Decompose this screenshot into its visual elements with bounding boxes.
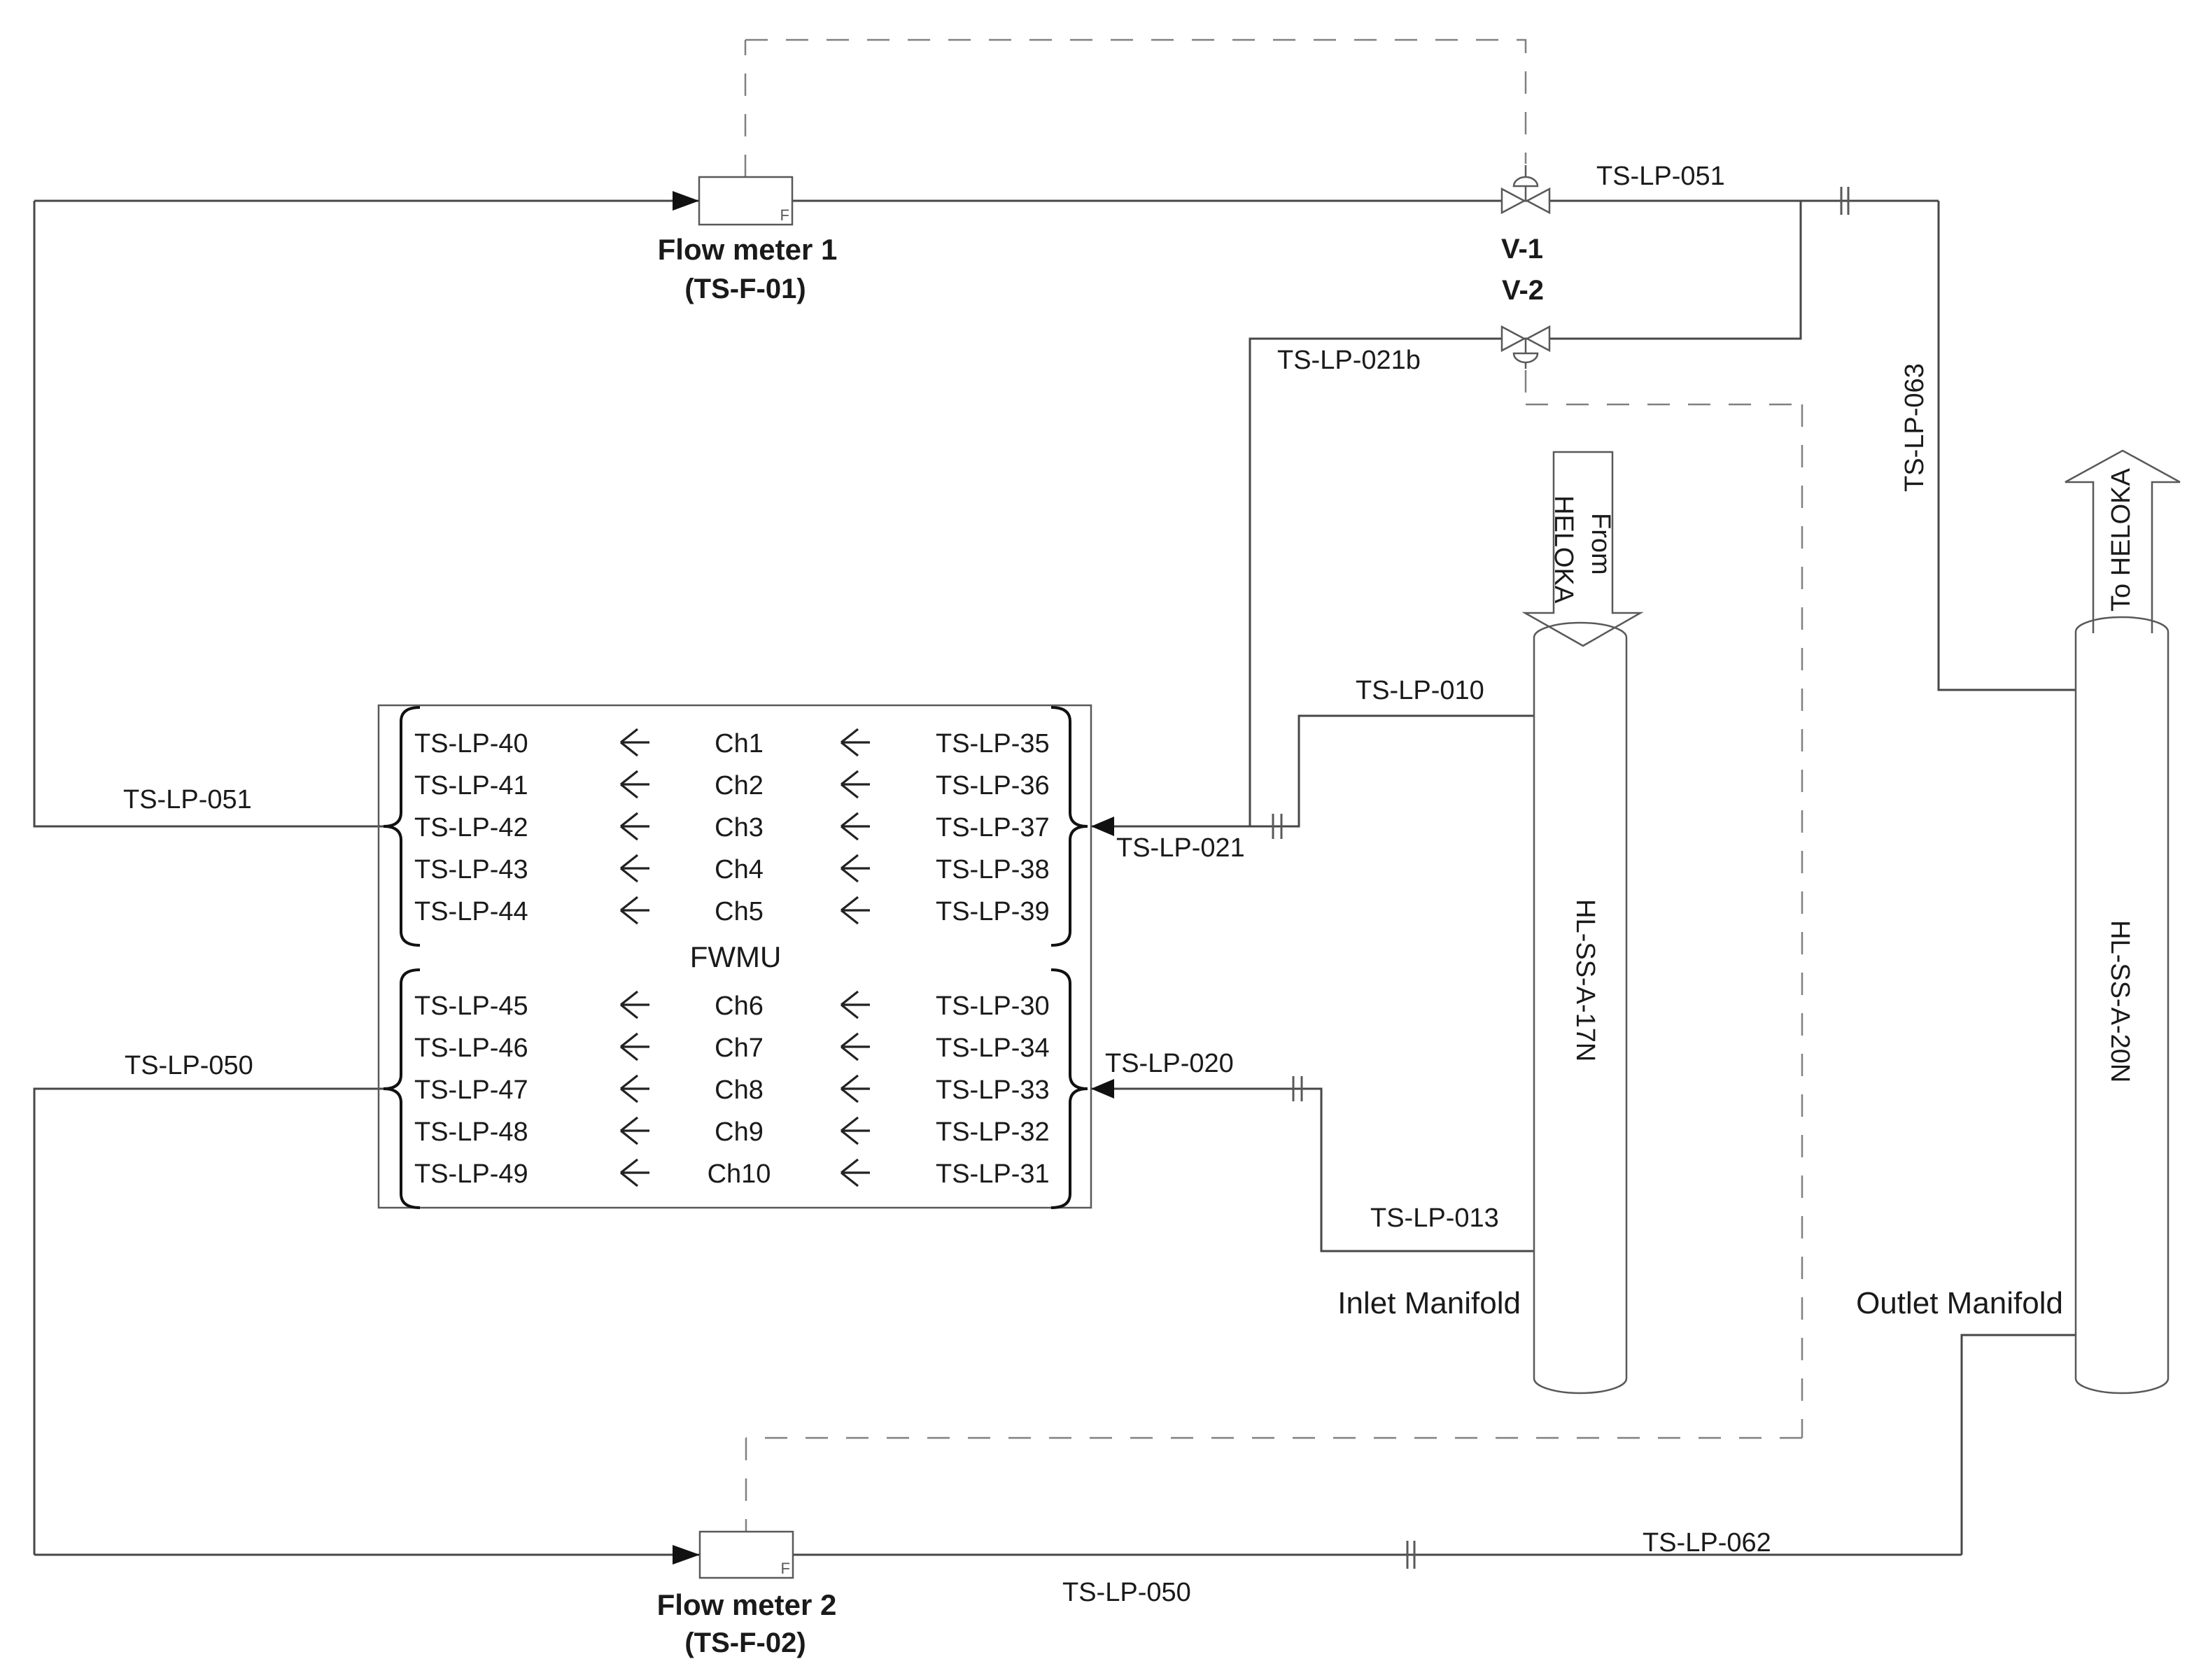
- svg-text:Ch7: Ch7: [715, 1033, 764, 1063]
- svg-text:TS-LP-36: TS-LP-36: [936, 771, 1050, 800]
- svg-text:TS-LP-42: TS-LP-42: [414, 813, 528, 842]
- svg-text:FWMU: FWMU: [690, 940, 782, 973]
- outlet manifold cylinder HL-SS-A-20N: [2076, 617, 2168, 1393]
- svg-text:TS-LP-050: TS-LP-050: [125, 1051, 253, 1080]
- svg-text:Ch8: Ch8: [715, 1075, 764, 1105]
- wire left TS-LP-050 line to FWMU row Ch8: [34, 1089, 384, 1555]
- svg-text:TS-LP-013: TS-LP-013: [1370, 1203, 1499, 1233]
- brace right group 1: [1051, 707, 1088, 945]
- svg-text:HL-SS-A-20N: HL-SS-A-20N: [2105, 920, 2135, 1082]
- wire TS-LP-063 to outlet manifold: [1939, 201, 2076, 690]
- dashed signal flow meter 1 to valve V-1: [745, 40, 747, 177]
- wire TS-LP-021b branch through V-2: [1250, 201, 1801, 826]
- svg-text:TS-LP-44: TS-LP-44: [414, 897, 528, 926]
- wire main top line TS-LP-051: [34, 200, 1939, 202]
- svg-text:F: F: [781, 1560, 790, 1577]
- svg-text:TS-LP-34: TS-LP-34: [936, 1033, 1050, 1063]
- svg-text:TS-LP-30: TS-LP-30: [936, 991, 1050, 1021]
- svg-text:Inlet Manifold: Inlet Manifold: [1337, 1286, 1521, 1320]
- svg-text:TS-LP-37: TS-LP-37: [936, 813, 1050, 842]
- flow meter 2 box: [700, 1532, 793, 1578]
- svg-text:Ch3: Ch3: [715, 813, 764, 842]
- svg-text:V-1: V-1: [1501, 234, 1543, 264]
- svg-text:From: From: [1586, 513, 1615, 575]
- svg-text:Ch10: Ch10: [708, 1159, 771, 1189]
- svg-text:F: F: [780, 206, 789, 224]
- svg-text:Ch4: Ch4: [715, 855, 764, 884]
- svg-text:HELOKA: HELOKA: [1549, 495, 1578, 604]
- svg-text:Flow meter 1: Flow meter 1: [658, 233, 838, 266]
- svg-text:TS-LP-47: TS-LP-47: [414, 1075, 528, 1105]
- flow arrow into FWMU at TS-LP-021: [1091, 817, 1114, 836]
- svg-text:TS-LP-010: TS-LP-010: [1356, 676, 1484, 705]
- flow arrow into FWMU at TS-LP-020: [1091, 1079, 1114, 1099]
- dashed signal valve V-2 to flow meter 2: [1525, 370, 1527, 404]
- FWMU row arrows column 1: [621, 729, 649, 1186]
- svg-text:TS-LP-48: TS-LP-48: [414, 1117, 528, 1147]
- pipe break TS-LP-020: [1293, 1076, 1302, 1101]
- pipe break TS-LP-021: [1273, 814, 1281, 839]
- svg-text:To HELOKA: To HELOKA: [2107, 467, 2136, 612]
- svg-text:TS-LP-021b: TS-LP-021b: [1277, 346, 1421, 375]
- svg-text:TS-LP-051: TS-LP-051: [1596, 162, 1725, 191]
- brace left group 2: [384, 970, 420, 1208]
- flow arrow into flow meter 2: [673, 1545, 700, 1565]
- FWMU box: [379, 705, 1091, 1208]
- flow arrow into flow meter 1: [673, 191, 699, 211]
- FWMU channel rows group 2 labels: [414, 991, 1050, 1189]
- svg-text:TS-LP-45: TS-LP-45: [414, 991, 528, 1021]
- svg-text:TS-LP-33: TS-LP-33: [936, 1075, 1050, 1105]
- valve V-2: [1502, 327, 1549, 369]
- arrow From HELOKA: [1525, 452, 1640, 646]
- valve V-1: [1502, 165, 1549, 213]
- svg-text:TS-LP-063: TS-LP-063: [1900, 363, 1929, 492]
- FWMU channel rows group 1 labels: [414, 729, 1050, 926]
- pipe break top line: [1841, 187, 1848, 215]
- arrow To HELOKA: [2065, 451, 2180, 633]
- svg-text:TS-LP-31: TS-LP-31: [936, 1159, 1050, 1189]
- svg-text:Flow meter 2: Flow meter 2: [657, 1588, 837, 1621]
- svg-text:V-2: V-2: [1502, 275, 1544, 306]
- svg-text:Ch2: Ch2: [715, 771, 764, 800]
- svg-text:Ch5: Ch5: [715, 897, 764, 926]
- svg-text:TS-LP-35: TS-LP-35: [936, 729, 1050, 758]
- svg-text:TS-LP-050: TS-LP-050: [1062, 1578, 1191, 1607]
- svg-text:TS-LP-40: TS-LP-40: [414, 729, 528, 758]
- wire TS-LP-021 / TS-LP-010 to inlet manifold: [1091, 716, 1534, 826]
- svg-text:Ch9: Ch9: [715, 1117, 764, 1147]
- svg-text:TS-LP-46: TS-LP-46: [414, 1033, 528, 1063]
- svg-text:TS-LP-051: TS-LP-051: [123, 785, 252, 814]
- svg-text:TS-LP-38: TS-LP-38: [936, 855, 1050, 884]
- svg-text:TS-LP-020: TS-LP-020: [1105, 1049, 1234, 1078]
- svg-text:TS-LP-062: TS-LP-062: [1643, 1528, 1771, 1558]
- flow meter 1 box: [699, 177, 792, 225]
- svg-text:Ch1: Ch1: [715, 729, 764, 758]
- svg-text:TS-LP-43: TS-LP-43: [414, 855, 528, 884]
- wire TS-LP-020 / TS-LP-013 to inlet manifold: [1091, 1089, 1534, 1251]
- svg-text:TS-LP-41: TS-LP-41: [414, 771, 528, 800]
- svg-text:Outlet Manifold: Outlet Manifold: [1856, 1286, 2063, 1320]
- svg-text:TS-LP-32: TS-LP-32: [936, 1117, 1050, 1147]
- svg-text:TS-LP-49: TS-LP-49: [414, 1159, 528, 1189]
- brace left group 1: [384, 707, 420, 945]
- wire bottom line TS-LP-050 / TS-LP-062: [34, 1554, 1962, 1556]
- wire riser to outlet manifold: [1962, 1335, 2076, 1555]
- pipe break bottom line: [1407, 1541, 1414, 1569]
- inlet manifold cylinder HL-SS-A-17N: [1534, 623, 1626, 1393]
- wire left vertical to FWMU row Ch3: [34, 201, 384, 826]
- svg-text:(TS-F-02): (TS-F-02): [684, 1628, 806, 1658]
- svg-text:TS-LP-021: TS-LP-021: [1116, 833, 1245, 863]
- svg-text:(TS-F-01): (TS-F-01): [684, 274, 806, 304]
- svg-text:Ch6: Ch6: [715, 991, 764, 1021]
- svg-text:TS-LP-39: TS-LP-39: [936, 897, 1050, 926]
- svg-text:HL-SS-A-17N: HL-SS-A-17N: [1570, 899, 1600, 1061]
- FWMU row arrows column 2: [841, 729, 870, 1186]
- brace right group 2: [1051, 970, 1088, 1208]
